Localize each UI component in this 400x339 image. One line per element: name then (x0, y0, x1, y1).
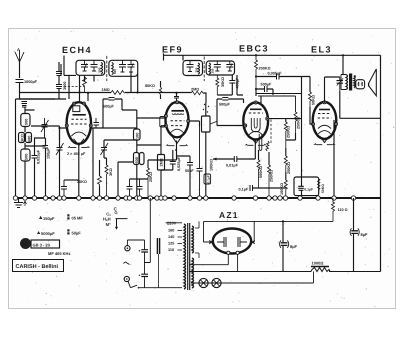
capacitor in can2A (187, 61, 194, 72)
mains line capacitor 1 (139, 240, 148, 263)
svg-text:600: 600 (135, 157, 139, 163)
svg-text:140: 140 (168, 235, 174, 239)
coil 100 osc (134, 118, 141, 152)
coil 250 in can2B (209, 63, 211, 74)
svg-text:110 Ω: 110 Ω (338, 208, 348, 212)
capacitor 100pF ECH4 right (94, 118, 100, 128)
switch blade (131, 285, 145, 288)
resistor 3K osc (105, 158, 113, 198)
bottom line with 1000 ohm (189, 261, 381, 272)
wire AGC mid (125, 92, 191, 94)
wire AZ1 anodes (204, 221, 255, 242)
resistor under can1 (83, 77, 87, 93)
svg-text:M°: M° (106, 222, 111, 227)
svg-text:250KΩ: 250KΩ (287, 162, 291, 174)
svg-text:0,025µF: 0,025µF (37, 149, 41, 164)
svg-text:5000µF: 5000µF (41, 231, 55, 236)
svg-text:50µF: 50µF (72, 231, 82, 236)
junction dots EBC3 plate (255, 88, 257, 90)
main bus (15, 197, 381, 199)
capacitor 500pF EBC3 grid top (217, 98, 244, 107)
svg-text:3KΩ: 3KΩ (109, 168, 113, 176)
shield divider IF can 2 (203, 57, 205, 82)
capacitor EF9 cathode c2 (137, 179, 143, 198)
junction dot ECH4 grid (58, 127, 60, 129)
svg-text:EF9: EF9 (162, 45, 183, 55)
wire EBC3 grid (217, 99, 244, 126)
output transformer core (349, 74, 352, 91)
wire EBC3 to EL3 column (269, 119, 302, 140)
wire speaker return (340, 91, 381, 118)
svg-text:8µF: 8µF (290, 244, 298, 249)
wire EF9 plate to rail (164, 54, 184, 97)
svg-text:500: 500 (25, 154, 29, 160)
coil 500 antenna (21, 114, 30, 133)
resistor 25K EBC3-EL3 b (294, 112, 301, 133)
legend 150uF (39, 216, 55, 221)
wire antenna coupling (20, 98, 56, 100)
resistor 250K EBC3-EL3 (284, 119, 290, 148)
svg-text:220V: 220V (167, 221, 177, 226)
resistor 2M AGC right (191, 88, 206, 104)
svg-text:AZ1: AZ1 (219, 210, 239, 220)
svg-text:H: H (22, 241, 26, 248)
coil 500 lower (21, 143, 30, 198)
wire left column joins (25, 110, 60, 146)
legend 5000uF (37, 231, 55, 236)
output transformer secondary (354, 76, 355, 88)
mains filter cap bar (157, 238, 159, 254)
wire ECH4 sides (60, 128, 104, 140)
junction rail EBC3 (255, 54, 257, 56)
capacitor 150uF left (43, 138, 51, 198)
capacitor 50uF EF9 right (177, 156, 195, 198)
wire can2B down (237, 75, 243, 95)
svg-text:250: 250 (210, 68, 214, 73)
IF can 2 box B (206, 61, 234, 75)
EBC3 cathode hairpin (259, 134, 262, 150)
coil 600 in can1B (112, 63, 114, 75)
svg-text:3000: 3000 (63, 82, 67, 90)
top rail (164, 54, 381, 56)
vertical line x301 (301, 77, 303, 199)
capacitor 0.005uF coupling (256, 72, 302, 80)
svg-text:150µF: 150µF (43, 216, 55, 221)
svg-text:150µF: 150µF (47, 147, 51, 159)
power transformer filament winding (192, 258, 194, 288)
capacitor 400pF under can2 (217, 75, 239, 95)
capacitor in can1A left (81, 60, 88, 71)
wire can1 to ECH4 (80, 75, 95, 102)
trimmer stack 3000 (56, 62, 67, 99)
svg-text:EBC3: EBC3 (239, 44, 269, 54)
svg-text:600: 600 (113, 69, 117, 74)
svg-text:20KΩ: 20KΩ (77, 180, 87, 184)
svg-text:110: 110 (168, 248, 174, 252)
capacitor 1000pF antenna (16, 80, 38, 199)
wire EBC3 plate lines (256, 89, 261, 103)
legend 50uF (67, 229, 81, 235)
mains line capacitor 2 (139, 263, 148, 288)
shield divider IF can 1 (106, 56, 108, 81)
wire ECH4 bottom (79, 128, 93, 198)
resistor 20K ECH4 cathode (77, 160, 102, 198)
svg-text:100KΩ: 100KΩ (210, 159, 214, 171)
capacitor tone across primary (337, 77, 344, 91)
svg-text:0,025µF: 0,025µF (177, 156, 181, 171)
junction circles on bus (13, 196, 355, 200)
wire EL3 screen (333, 120, 335, 198)
svg-text:25KΩ: 25KΩ (149, 172, 153, 182)
svg-text:MF 465 KHz: MF 465 KHz (48, 251, 70, 256)
ground (14, 198, 27, 208)
junction dots AGC ECH4 (78, 91, 80, 93)
svg-text:500µF: 500µF (103, 105, 115, 109)
capacitor in can1B left (119, 60, 126, 72)
electrolytic 8uF second (350, 198, 368, 272)
antenna A (15, 47, 24, 78)
tube EF9 (164, 101, 189, 146)
power transformer core (188, 223, 190, 290)
coil box 3K 600 (19, 133, 32, 143)
variable capacitor osc (101, 140, 109, 158)
electrolytic 8uF first (280, 220, 298, 271)
resistor 250K lower (268, 152, 274, 198)
wire can1B down to EF9 grid (131, 72, 138, 93)
legend C G H markings (103, 206, 128, 229)
svg-text:1MΩ: 1MΩ (102, 88, 110, 92)
svg-text:50KΩ: 50KΩ (321, 184, 325, 193)
svg-text:500: 500 (98, 67, 102, 72)
coil 500 in can1A (101, 63, 103, 75)
svg-text:0,01µF: 0,01µF (226, 164, 239, 168)
capacitor in can1A right (91, 60, 98, 71)
svg-text:500µF: 500µF (261, 83, 273, 87)
top cap EF9 (174, 97, 179, 102)
svg-text:ECH4: ECH4 (62, 45, 92, 55)
capacitor ECH4 cathode bypass (61, 180, 67, 198)
wire EL3 grid (310, 107, 313, 124)
capacitor 500pF EBC3 plate (256, 83, 273, 96)
svg-text:400µF: 400µF (236, 77, 240, 89)
wire osc left verticals (64, 56, 88, 102)
junction dot rail transformer (342, 54, 344, 56)
resistor 110 ohm (332, 198, 348, 221)
capacitor 0.01uF AF (213, 139, 255, 168)
dial lamps (191, 272, 314, 288)
volume pot 100K (202, 103, 218, 198)
svg-text:500: 500 (25, 119, 29, 125)
svg-text:1000Ω: 1000Ω (312, 261, 324, 266)
wire osc column (103, 99, 122, 128)
svg-text:100: 100 (136, 133, 140, 139)
svg-text:1000µF: 1000µF (24, 80, 38, 84)
svg-text:EL3: EL3 (311, 45, 332, 55)
tube AZ1 (209, 229, 254, 255)
wire EL3 plate to transformer (325, 55, 344, 102)
capacitor EF9 cathode c1 (127, 179, 133, 198)
svg-text:30KΩ: 30KΩ (221, 77, 225, 87)
svg-text:500µF: 500µF (219, 103, 231, 107)
capacitor in can2B left (214, 61, 221, 71)
svg-text:200KΩ: 200KΩ (259, 67, 271, 71)
speaker cone (354, 69, 377, 96)
power transformer primary (184, 224, 186, 289)
mains switch squiggle (124, 262, 130, 264)
svg-text:250KΩ: 250KΩ (270, 170, 274, 182)
IF can 2 box A (183, 61, 203, 76)
output transformer primary (341, 75, 348, 90)
trimmer cap antenna coil top (22, 102, 28, 114)
IF can 1 box A (76, 60, 105, 75)
svg-text:0,1µF: 0,1µF (304, 187, 313, 191)
resistor 30K under can2 (216, 75, 225, 95)
junction AGC (136, 91, 138, 93)
tube ECH4 (65, 102, 92, 148)
svg-text:160: 160 (168, 229, 174, 233)
pot tap box 0.1uF (204, 174, 211, 184)
scanned page area (9, 29, 396, 309)
wire mains bottom (145, 287, 183, 289)
svg-text:250KΩ: 250KΩ (286, 126, 290, 138)
svg-text:250: 250 (195, 67, 199, 72)
variable capacitor tuning 1 (56, 140, 64, 198)
resistor 25K EF9 cathode (147, 160, 154, 198)
svg-text:3KΩ: 3KΩ (21, 134, 25, 142)
junction dot EF9 topcap (175, 92, 177, 94)
wire HV secondary to AZ1 (195, 221, 199, 258)
wire mains tap (145, 198, 183, 263)
wire EF9 cathode (148, 141, 177, 161)
EF9 metallisation contact (160, 117, 165, 128)
wire antenna down (19, 62, 21, 78)
resistor 50K tone (318, 179, 325, 194)
resistor 100K right (280, 172, 287, 198)
diagonal resistor EBC3 diode (266, 141, 269, 151)
resistor 50K EL3 grid (302, 77, 316, 108)
svg-text:0,1µF: 0,1µF (206, 175, 210, 183)
right edge down (380, 55, 382, 271)
CARISH - Bellini box (13, 260, 64, 272)
wire AGC line left (20, 92, 112, 94)
capacitor in can1B right (128, 60, 135, 72)
legend 0.5MF (67, 214, 83, 220)
capacitor 500pF osc grid (103, 98, 122, 109)
svg-text:2 × 492 µF: 2 × 492 µF (67, 152, 86, 156)
svg-text:125: 125 (168, 242, 174, 246)
svg-text:600: 600 (28, 136, 32, 142)
capacitor EF9 plate decoupling (197, 169, 203, 172)
wire EF9 sides (161, 121, 200, 145)
resistor 250K AF divider (284, 148, 291, 174)
svg-text:0,005µF: 0,005µF (268, 72, 283, 76)
coil 600 100 osc lower (134, 153, 145, 199)
svg-text:CARISH - Bellini: CARISH - Bellini (16, 264, 59, 270)
primary taps (168, 229, 182, 253)
wire double pair to EL3 grid (256, 94, 302, 113)
wire AZ1 filament (189, 254, 238, 271)
svg-text:GB 3 - 20: GB 3 - 20 (33, 243, 51, 248)
tube EL3 (312, 101, 338, 145)
speaker driver (356, 80, 365, 89)
power transformer secondary (192, 226, 194, 253)
variable capacitor RF trim (41, 118, 49, 138)
resistor 80K screen (145, 81, 162, 99)
svg-text:05 MF: 05 MF (72, 216, 84, 221)
wire osc links (20, 64, 166, 198)
svg-text:80KΩ: 80KΩ (145, 84, 155, 88)
mains plug terminal 1 (125, 240, 145, 251)
tube EBC3 (243, 101, 268, 145)
resistor 2M box osc (158, 145, 165, 176)
capacitor in can2B right (226, 61, 233, 71)
resistor 200K plate EBC3 (255, 55, 271, 89)
svg-text:100KΩ: 100KΩ (280, 183, 284, 195)
logo GB 2-20 (20, 238, 60, 249)
coil 250 in can2A (198, 63, 200, 74)
box 0.1uF tone (294, 177, 319, 196)
resistor 500K (257, 150, 263, 188)
capacitor 0.1uF EBC3 out (239, 185, 286, 192)
IF can 1 box B (109, 60, 138, 76)
wire HT top rail (204, 220, 334, 222)
capacitor 0.025uF EF9 (161, 150, 181, 198)
resistor 1M AGC (102, 88, 125, 95)
svg-text:8µF: 8µF (361, 232, 369, 237)
capacitor 0.025uF (32, 146, 41, 198)
shield dash EBC3 (270, 120, 272, 144)
svg-text:G: G (114, 210, 117, 215)
mains plug terminal 2 (124, 276, 130, 287)
svg-text:0,1µF: 0,1µF (239, 188, 249, 192)
svg-text:HₐH: HₐH (103, 216, 111, 221)
